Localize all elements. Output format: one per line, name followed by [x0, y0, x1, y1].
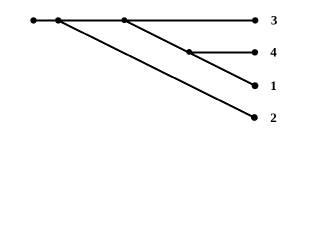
wire node B diagonal to leaf 2 — [58, 20, 254, 117]
node leaf 4 — [252, 49, 258, 55]
wire node D horizontal to leaf 4 — [189, 52, 255, 54]
svg-text:1: 1 — [270, 78, 277, 93]
svg-text:4: 4 — [270, 45, 277, 60]
wire root horizontal backbone to leaf 3 — [34, 19, 256, 21]
svg-text:2: 2 — [270, 110, 277, 125]
node C — [121, 17, 127, 23]
node leaf 1 — [252, 82, 259, 89]
wire node C diagonal to leaf 1 — [124, 20, 255, 85]
node leaf 2 — [251, 114, 258, 121]
svg-text:3: 3 — [271, 13, 278, 28]
node root — [30, 17, 36, 23]
node leaf 3 — [252, 17, 258, 23]
node B — [55, 17, 61, 23]
node D — [186, 49, 192, 55]
